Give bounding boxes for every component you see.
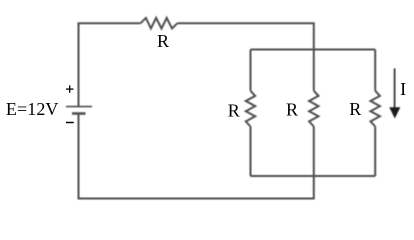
wire: top-left from battery top plate up and right to resistor R1 (79, 23, 141, 106)
resistor R4 (right branch, vertical) (371, 91, 380, 127)
svg-text:R: R (157, 31, 169, 51)
battery minus sign (66, 122, 74, 124)
wire: battery bottom to bottom-left corner and bottom wire (79, 114, 314, 199)
wire: parallel top rail (251, 49, 376, 51)
battery E1 short plate (negative) (72, 112, 86, 115)
current arrow I head (389, 107, 400, 118)
svg-text:R: R (286, 100, 298, 120)
svg-text:E=12V: E=12V (6, 99, 59, 119)
wire: parallel bottom rail (251, 175, 376, 177)
battery E1 long plate (positive) (66, 106, 92, 108)
resistor R1 (top, horizontal) (141, 18, 178, 29)
resistor R3 (middle branch, vertical) (309, 91, 318, 127)
svg-text:R: R (228, 101, 240, 121)
resistor R2 (left branch, vertical) (246, 91, 255, 127)
svg-text:I: I (400, 79, 406, 99)
svg-text:R: R (349, 99, 361, 119)
current arrow I shaft (394, 68, 396, 108)
wire: top right segment to middle branch corner (177, 23, 313, 91)
wire: left branch upper (250, 50, 252, 91)
battery plus sign (66, 85, 73, 92)
wire: right branch lower (374, 127, 376, 177)
wire: left branch lower (250, 127, 252, 177)
wire: right branch upper (374, 50, 376, 91)
